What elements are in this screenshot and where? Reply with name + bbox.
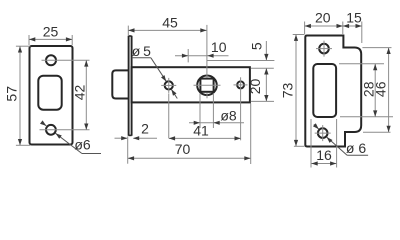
svg-text:5: 5 <box>249 42 265 50</box>
svg-text:25: 25 <box>43 24 59 40</box>
svg-text:ø 6: ø 6 <box>346 140 366 156</box>
svg-text:57: 57 <box>4 86 20 102</box>
svg-text:20: 20 <box>247 79 263 95</box>
svg-text:42: 42 <box>71 85 87 101</box>
svg-text:ø6: ø6 <box>74 136 91 152</box>
svg-text:41: 41 <box>193 122 209 138</box>
svg-text:46: 46 <box>372 81 388 97</box>
svg-text:2: 2 <box>141 120 149 136</box>
svg-text:ø 5: ø 5 <box>132 43 151 59</box>
svg-text:20: 20 <box>315 10 331 26</box>
svg-text:ø8: ø8 <box>220 108 237 124</box>
svg-text:10: 10 <box>211 39 227 55</box>
svg-text:70: 70 <box>175 141 191 157</box>
svg-text:16: 16 <box>316 147 332 163</box>
svg-text:73: 73 <box>279 83 295 99</box>
svg-text:15: 15 <box>346 10 362 26</box>
svg-text:45: 45 <box>162 15 178 31</box>
